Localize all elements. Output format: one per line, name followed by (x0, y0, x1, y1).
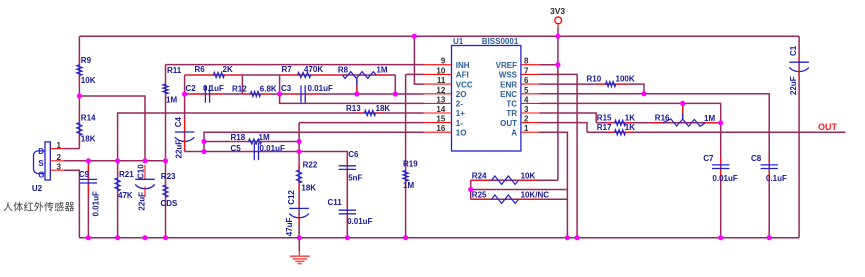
node junction (299.1,151.5) (297, 149, 302, 154)
svg-text:R16: R16 (655, 113, 670, 122)
resistor R13 18K (357, 112, 365, 114)
svg-text:1+: 1+ (456, 109, 465, 118)
wire R6 right vertical (241, 75, 243, 94)
svg-text:47uF: 47uF (285, 218, 294, 237)
svg-text:C1: C1 (789, 45, 798, 56)
svg-text:2-: 2- (456, 100, 463, 109)
wire R23/R11 column (165, 65, 167, 161)
wire TR net (pin 3) to R15 (540, 113, 597, 123)
svg-text:D: D (38, 147, 44, 156)
node junction (117.6,160.8) (115, 158, 120, 163)
node junction (769.2,237.7) (767, 235, 772, 240)
node junction (299.1,141.5) (297, 139, 302, 144)
wire R8 right vertical (394, 75, 396, 94)
svg-text:5: 5 (524, 86, 529, 95)
svg-text:22uF: 22uF (174, 140, 183, 159)
svg-text:1M: 1M (704, 114, 715, 123)
node junction (204,141.5) (201, 139, 206, 144)
svg-text:1K: 1K (625, 123, 635, 132)
wire TC net (pin 4) to C7 (540, 103, 721, 237)
capacitor C7 0.01uF (720, 157, 722, 165)
svg-text:R7: R7 (282, 65, 293, 74)
resistor R14 18K (78, 114, 80, 123)
node junction (145,237.7) (142, 235, 147, 240)
wire R7 left vertical (279, 75, 281, 94)
svg-text:10: 10 (436, 66, 445, 75)
wire INH net (pin 9) (166, 64, 424, 66)
wire 2- net (pin 13) (280, 94, 424, 103)
node junction (165.5,160.8) (163, 158, 168, 163)
power 3V3 (555, 17, 562, 24)
wire A net (pin 1) (540, 132, 568, 238)
svg-text:S: S (38, 159, 44, 168)
svg-text:1M: 1M (166, 96, 177, 105)
svg-text:1M: 1M (403, 181, 414, 190)
svg-text:C2: C2 (186, 84, 197, 93)
node junction (720.7,237.7) (718, 235, 723, 240)
wire U2 pin2 bias net (64, 160, 166, 162)
resistor R25 10K/NC (471, 198, 492, 200)
node junction (577.1,237.7) (575, 235, 580, 240)
svg-text:0.1uF: 0.1uF (766, 174, 787, 183)
pin 2 U2 S (50, 160, 64, 162)
wire R8 tap vertical (356, 78, 358, 94)
svg-text:C3: C3 (281, 84, 292, 93)
wire C6/C11 branch (299, 152, 347, 238)
wire 1O net (pin 16) (204, 132, 424, 151)
svg-text:10K: 10K (81, 76, 96, 85)
svg-text:15: 15 (436, 115, 445, 124)
svg-text:R8: R8 (338, 66, 349, 75)
svg-text:A: A (511, 128, 517, 137)
svg-text:12: 12 (436, 86, 445, 95)
capacitor C5 0.01uF (242, 151, 253, 153)
node junction (88.4,237.7) (86, 235, 91, 240)
svg-text:22uF: 22uF (789, 76, 798, 95)
wire R21 branch (117, 161, 119, 238)
pin 10 AFI (424, 73, 452, 75)
capacitor C3 0.01uF (283, 93, 301, 95)
svg-text:R18: R18 (231, 133, 246, 142)
node junction (184.6,94.0) (182, 91, 187, 96)
svg-text:1: 1 (57, 141, 62, 150)
svg-text:C5: C5 (231, 144, 242, 153)
svg-text:470K: 470K (304, 65, 323, 74)
svg-text:U2: U2 (32, 184, 43, 193)
capacitor C12 47uF electrolytic (298, 196, 300, 208)
pin 14 1+ (424, 112, 452, 114)
svg-text:0.01uF: 0.01uF (347, 217, 372, 226)
svg-text:R11: R11 (167, 66, 182, 75)
svg-text:2: 2 (57, 153, 62, 162)
wire R24/R25 left tie (470, 180, 472, 199)
node junction (299.3,237.7) (297, 235, 302, 240)
svg-text:R12: R12 (232, 84, 247, 93)
wire WSS net (pin 7) (540, 74, 578, 237)
wire R16 tap vertical (682, 103, 684, 119)
photoresistor R23 CDS (165, 178, 167, 185)
svg-text:ENC: ENC (500, 90, 517, 99)
svg-text:TC: TC (506, 100, 517, 109)
node junction (720.7,122.8) (718, 120, 723, 125)
svg-text:2K: 2K (223, 65, 233, 74)
svg-text:AFI: AFI (456, 71, 469, 80)
svg-text:R19: R19 (403, 160, 418, 169)
wire net-A R6/R7/R8 row (185, 74, 396, 76)
pin 11 VCC (424, 83, 452, 85)
svg-text:C7: C7 (703, 154, 714, 163)
svg-text:U1: U1 (453, 37, 464, 46)
node junction (644.0,93.8) (641, 91, 646, 96)
node junction (395.3,94.0) (393, 91, 398, 96)
svg-text:22uF: 22uF (137, 192, 146, 211)
svg-text:18K: 18K (301, 184, 316, 193)
svg-text:10K/NC: 10K/NC (521, 190, 550, 199)
svg-text:0.01uF: 0.01uF (91, 191, 100, 216)
svg-text:0.1uF: 0.1uF (203, 84, 224, 93)
wire R24/R25 node to A column (471, 189, 568, 191)
svg-text:R9: R9 (81, 56, 92, 65)
svg-text:TR: TR (506, 109, 517, 118)
svg-text:1M: 1M (259, 133, 270, 142)
node junction (347.3,237.7) (345, 235, 350, 240)
node junction (79.4,96) (77, 93, 82, 98)
node junction (414.4,36.2) (412, 34, 417, 39)
svg-text:100K: 100K (616, 75, 635, 84)
node junction (117.6,237.7) (115, 235, 120, 240)
svg-text:16: 16 (436, 124, 445, 133)
resistor R19 1M (405, 162, 407, 171)
capacitor C10 22uF electrolytic (144, 165, 146, 179)
resistor R8 1M tapped (342, 72, 376, 79)
svg-text:R14: R14 (81, 114, 96, 123)
svg-text:0.01uF: 0.01uF (308, 84, 333, 93)
svg-text:R10: R10 (587, 75, 602, 84)
svg-text:18K: 18K (376, 104, 391, 113)
svg-text:1M: 1M (376, 66, 387, 75)
svg-text:INH: INH (456, 61, 470, 70)
resistor R15 1K (607, 122, 614, 124)
svg-text:4: 4 (524, 95, 529, 104)
pin 2 OUT (521, 122, 540, 124)
svg-text:R22: R22 (303, 161, 318, 170)
ground (298, 238, 300, 251)
resistor R11 1M (165, 66, 167, 85)
svg-text:1-: 1- (456, 119, 463, 128)
svg-text:人体红外传感器: 人体红外传感器 (3, 201, 75, 214)
resistor R6 2K (185, 74, 214, 76)
pin 4 TC (521, 102, 540, 104)
svg-text:C9: C9 (79, 170, 90, 179)
svg-text:3: 3 (524, 105, 529, 114)
svg-text:C6: C6 (348, 150, 359, 159)
pin 7 WSS (521, 73, 540, 75)
svg-text:0.01uF: 0.01uF (712, 174, 737, 183)
wire R25 row (471, 198, 568, 200)
pin 9 INH (424, 64, 452, 66)
svg-text:CDS: CDS (161, 199, 179, 208)
svg-text:C4: C4 (174, 117, 183, 128)
wire 1+ net with R13 (pin 14) (118, 113, 424, 161)
svg-text:5nF: 5nF (348, 174, 362, 183)
svg-text:R21: R21 (119, 170, 134, 179)
pin 3 U2 G (50, 169, 64, 171)
pin 3 TR (521, 112, 540, 114)
resistor R24 10K (471, 179, 492, 181)
node junction (279.6,94.0) (277, 91, 282, 96)
wire R24 row (471, 179, 558, 181)
PIR sensor U2 body (45, 142, 50, 180)
node junction (88.4,160.8) (86, 158, 91, 163)
wire VREF stub link (pin 8) (540, 64, 558, 66)
capacitor C6 5nF (346, 156, 348, 164)
svg-text:R6: R6 (195, 65, 206, 74)
wire ENC net (pin 5) to C8 (540, 94, 770, 238)
svg-text:OUT: OUT (500, 119, 517, 128)
wire VO net (pin 2) to R17 (540, 123, 588, 133)
svg-text:1: 1 (524, 124, 529, 133)
svg-text:3: 3 (57, 162, 62, 171)
wire 2O net (pin 12) (185, 93, 424, 95)
svg-text:OUT: OUT (818, 122, 838, 132)
svg-text:R17: R17 (597, 123, 612, 132)
svg-text:6.8K: 6.8K (260, 84, 277, 93)
svg-text:1K: 1K (625, 113, 635, 122)
pin 15 1- (424, 122, 452, 124)
svg-text:R23: R23 (161, 172, 176, 181)
wire C4 column (184, 75, 186, 152)
svg-text:2: 2 (524, 115, 529, 124)
capacitor C4 22uF electrolytic (184, 119, 186, 132)
capacitor C11 0.01uF (346, 200, 348, 208)
resistor R21 47K (117, 169, 119, 180)
resistor R12 6.8K (242, 93, 250, 95)
svg-text:1O: 1O (456, 128, 467, 137)
svg-text:R13: R13 (346, 104, 361, 113)
pin 16 1O (424, 131, 452, 133)
node junction (557.9,64.7) (555, 62, 560, 67)
node junction (165.5,237.7) (163, 235, 168, 240)
node junction (682.7,103.4) (680, 101, 685, 106)
svg-text:11: 11 (437, 76, 446, 85)
resistor R22 18K (298, 163, 300, 170)
svg-text:ENR: ENR (500, 80, 517, 89)
wire AFI net (pin 10) and R19 column (406, 73, 424, 75)
wire C9 branch (87, 161, 89, 238)
op-amp IC U1 BISS0001 (452, 46, 521, 152)
svg-text:10K: 10K (521, 171, 536, 180)
svg-text:7: 7 (524, 66, 529, 75)
wire 1- column (pin 15 / R22 / C12) (299, 122, 423, 124)
node junction (567.4,237.7) (565, 235, 570, 240)
resistor R17 1K (607, 131, 614, 133)
svg-text:C10: C10 (137, 164, 146, 179)
pin 1 U2 D (50, 148, 64, 150)
pin 1 A (521, 131, 540, 133)
svg-text:3V3: 3V3 (550, 6, 565, 16)
node junction (470.7,189.5) (468, 187, 473, 192)
wire left edge upper (R9/R14 column) (78, 36, 80, 148)
capacitor C1 22uF electrolytic (798, 55, 800, 62)
node junction (145,160.8) (142, 158, 147, 163)
pin 5 ENC (521, 93, 540, 95)
resistor R7 470K (280, 74, 298, 76)
svg-text:13: 13 (436, 95, 445, 104)
svg-text:0.01uF: 0.01uF (260, 144, 285, 153)
wire R15/R16 row (596, 122, 721, 124)
wire U2 pin1 to R14 (64, 148, 79, 150)
resistor R18 1M (242, 141, 249, 143)
node junction (557.9,36.2) (555, 34, 560, 39)
capacitor C2 0.1uF (190, 93, 206, 95)
svg-text:VREF: VREF (496, 61, 517, 70)
svg-text:VCC: VCC (456, 80, 473, 89)
node junction (204,151.5) (201, 149, 206, 154)
resistor R10 100K (597, 83, 606, 85)
capacitor C8 0.1uF (768, 157, 770, 165)
svg-text:8: 8 (524, 57, 529, 66)
wire 3V3 top rail (79, 35, 799, 37)
wire VCC drop (pin 11) (414, 36, 423, 84)
svg-text:6: 6 (524, 76, 529, 85)
potentiometer R16 1M tapped (651, 122, 662, 124)
pin 6 ENR (521, 83, 540, 85)
node junction (356.9,94.0) (354, 91, 359, 96)
svg-text:C12: C12 (287, 190, 296, 205)
pin 13 2- (424, 102, 452, 104)
svg-text:R15: R15 (597, 113, 612, 122)
svg-text:C8: C8 (751, 154, 762, 163)
svg-text:R25: R25 (472, 190, 487, 199)
svg-text:C11: C11 (328, 198, 343, 207)
svg-text:9: 9 (441, 57, 446, 66)
resistor R9 10K (78, 55, 80, 65)
svg-text:14: 14 (436, 105, 445, 114)
node junction (405.6,237.7) (403, 235, 408, 240)
svg-text:G: G (38, 170, 44, 179)
wire 3V3 drop / VREF / R24 column (557, 36, 559, 180)
wire GND bottom rail (79, 237, 799, 239)
svg-text:BISS0001: BISS0001 (482, 37, 519, 46)
wire ENR net with R10 (pin 6) (540, 84, 645, 94)
svg-text:18K: 18K (81, 135, 96, 144)
wire R18 row (204, 141, 299, 143)
pin 8 VREF (521, 64, 540, 66)
svg-text:47K: 47K (118, 191, 133, 200)
wire node R9/R14 to C10 column (79, 96, 145, 161)
svg-text:WSS: WSS (499, 71, 518, 80)
wire C5 row (185, 151, 300, 153)
svg-text:R24: R24 (472, 171, 487, 180)
wire C1 column (798, 36, 800, 238)
wire OUT line (587, 131, 846, 133)
svg-text:2O: 2O (456, 90, 467, 99)
capacitor C9 0.01uF (87, 165, 89, 178)
pin 12 2O (424, 93, 452, 95)
wire left edge lower (U2 pin3 to GND) (64, 170, 79, 238)
